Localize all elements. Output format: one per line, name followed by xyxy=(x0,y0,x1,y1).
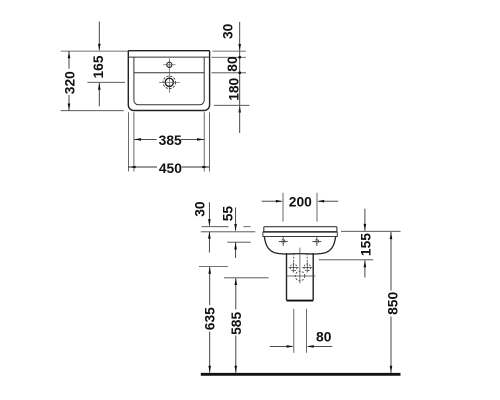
drain inner circle xyxy=(165,78,173,86)
ext line front mounting holes C xyxy=(227,241,250,243)
dimension 165 (left) xyxy=(91,22,106,107)
ext vertical x=209.5 below basin xyxy=(209,112,211,171)
svg-text:180: 180 xyxy=(227,77,242,100)
mounting hole right xyxy=(312,237,321,246)
fixing hole left (dashed circle with cross) xyxy=(289,263,299,273)
basin rim line xyxy=(128,56,209,58)
dimension 55 (front) xyxy=(220,206,237,258)
fixing hole right (dashed circle with cross) xyxy=(302,263,312,273)
basin body outline xyxy=(264,237,335,254)
ext line right chain y=51 xyxy=(213,50,247,52)
pedestal bottom edge xyxy=(287,300,314,302)
svg-text:55: 55 xyxy=(220,206,235,222)
dimension 385 xyxy=(134,133,204,148)
svg-text:850: 850 xyxy=(386,292,401,315)
ext vertical x=133.9 below basin xyxy=(133,112,135,171)
svg-text:30: 30 xyxy=(221,23,236,39)
concealed fitting dashed verticals xyxy=(294,254,308,264)
svg-text:635: 635 xyxy=(202,307,217,330)
ext line 635 top xyxy=(199,266,228,268)
svg-text:165: 165 xyxy=(91,55,106,78)
basin rim top band xyxy=(264,227,337,232)
dimension 635 xyxy=(202,267,217,374)
svg-text:200: 200 xyxy=(289,194,312,209)
dimension chain right: 30 / 80 / 180 xyxy=(221,22,242,133)
ext line basin top (left) xyxy=(61,50,129,52)
svg-text:155: 155 xyxy=(359,233,374,256)
svg-text:450: 450 xyxy=(159,161,182,176)
dimension 155 xyxy=(359,209,374,278)
faucet hole centerline tick xyxy=(163,64,175,66)
ext verticals 80 xyxy=(293,309,295,353)
dimension 80 (front bottom) xyxy=(270,330,333,348)
floor line xyxy=(201,373,401,376)
drain hole front (dashed circle) xyxy=(286,271,315,281)
mounting hole left xyxy=(279,237,288,246)
basin inner bowl outline xyxy=(134,57,204,105)
ext line drain center (left) xyxy=(87,81,125,83)
front centerline xyxy=(299,248,301,284)
ext vertical x=128.4 below basin xyxy=(127,112,129,171)
pedestal right edge xyxy=(312,253,314,300)
ext line right chain y=72.8 xyxy=(212,72,247,74)
svg-text:385: 385 xyxy=(159,133,182,148)
bowl back edge line xyxy=(134,72,204,74)
basin outer outline xyxy=(128,51,209,111)
ext line front rim B xyxy=(201,231,256,233)
svg-text:80: 80 xyxy=(225,56,240,72)
svg-text:80: 80 xyxy=(316,330,332,345)
centerline through faucet and drain xyxy=(168,58,170,93)
dimension 850 xyxy=(386,232,401,373)
svg-text:585: 585 xyxy=(229,312,244,335)
drain centerline tick xyxy=(159,81,180,83)
ext line 155 bottom xyxy=(319,259,373,261)
basin rim front edge (thick) xyxy=(263,231,338,233)
ext line 585 top xyxy=(224,277,269,279)
svg-text:30: 30 xyxy=(192,201,207,217)
drain outer dashed circle xyxy=(163,76,176,89)
basin rim lower band xyxy=(263,232,337,236)
dimension 200 xyxy=(262,194,339,209)
ext line right chain y=105.3 xyxy=(214,104,250,106)
ext line basin bottom (left) xyxy=(61,110,124,112)
pedestal (siphon cover) left edge xyxy=(286,253,288,300)
ext line 155 top / 850 top xyxy=(341,230,401,232)
ext line right chain y=57 xyxy=(212,56,247,58)
faucet hole xyxy=(167,62,172,67)
dimension 30 (front) xyxy=(192,201,210,252)
dimension 450 xyxy=(128,161,209,176)
svg-text:320: 320 xyxy=(62,71,77,94)
ext vertical x=204.2 below basin xyxy=(203,112,205,171)
ext line front basin top A (two segments) xyxy=(202,226,229,228)
dimension 585 xyxy=(229,278,244,373)
dimension 320 (left) xyxy=(62,51,77,111)
ext verticals 200 xyxy=(282,193,284,222)
